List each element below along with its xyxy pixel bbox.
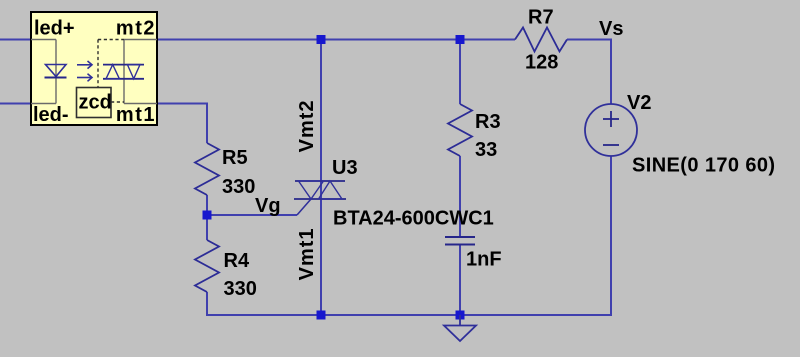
svg-text:Vmt1: Vmt1 — [296, 227, 318, 280]
svg-text:SINE(0 170 60): SINE(0 170 60) — [632, 155, 775, 177]
pin label mt2 — [116, 18, 156, 40]
svg-text:U3: U3 — [332, 157, 358, 179]
svg-text:Vmt2: Vmt2 — [296, 99, 318, 152]
wire R7 to Vs corner — [567, 39, 611, 41]
optocoupler body — [31, 12, 157, 125]
label R4 — [224, 250, 250, 272]
node Vg junction — [203, 211, 212, 220]
net label Vmt1 — [296, 227, 318, 280]
svg-text:mt2: mt2 — [116, 18, 156, 40]
svg-text:128: 128 — [525, 52, 558, 74]
wire R3 column top — [459, 40, 461, 105]
label R7 — [528, 7, 554, 29]
wire bottom net — [207, 314, 611, 316]
triac U3 — [294, 181, 346, 215]
dashed zcd links — [98, 40, 124, 103]
label U3 — [332, 157, 358, 179]
wire R5 to Vg node — [206, 195, 208, 240]
resistor R7 — [515, 28, 567, 52]
svg-text:R3: R3 — [475, 111, 501, 133]
net label Vg — [255, 195, 281, 217]
junction bottom ground node — [456, 311, 465, 320]
wire Vg gate — [207, 214, 297, 216]
wire V2 bottom to bottom net — [610, 156, 612, 316]
svg-text:BTA24-600CWC1: BTA24-600CWC1 — [333, 208, 494, 230]
wire capacitor to bottom net — [459, 245, 461, 316]
value SINE(0 170 60) — [632, 155, 775, 177]
svg-text:330: 330 — [222, 176, 255, 198]
pin label led- — [33, 104, 69, 126]
label R3 — [475, 111, 501, 133]
svg-text:mt1: mt1 — [116, 104, 156, 126]
optocoupler LED — [45, 65, 67, 78]
value BTA24-600CWC1 — [333, 208, 494, 230]
optocoupler internal triac — [103, 65, 144, 79]
wire top net mt2 to R7 — [157, 39, 515, 41]
value 330 (R4) — [224, 278, 257, 300]
svg-text:R7: R7 — [528, 7, 554, 29]
svg-text:led+: led+ — [34, 18, 75, 40]
value 128 (R7) — [525, 52, 558, 74]
label V2 — [627, 92, 651, 114]
svg-text:zcd: zcd — [79, 92, 112, 114]
label R5 — [222, 147, 248, 169]
optocoupler led conductor — [31, 40, 56, 104]
zcd block — [77, 88, 112, 118]
net label Vs — [599, 18, 623, 40]
optocoupler triac conductor — [124, 40, 157, 104]
value 1nF — [466, 249, 502, 271]
ground — [444, 315, 476, 341]
junction top R3 column — [456, 35, 465, 44]
svg-text:Vg: Vg — [255, 195, 281, 217]
svg-text:V2: V2 — [627, 92, 651, 114]
pin label led+ — [34, 18, 75, 40]
wire led- from left edge — [0, 103, 31, 105]
junction top triac column — [317, 35, 326, 44]
svg-text:R5: R5 — [222, 147, 248, 169]
value 33 (R3) — [475, 139, 497, 161]
coupling arrows — [77, 61, 92, 81]
wire led+ from left edge — [0, 39, 31, 41]
resistor R5 — [195, 143, 219, 195]
wire R4 to bottom net — [206, 292, 208, 316]
voltage source V2 — [585, 104, 637, 156]
svg-text:330: 330 — [224, 278, 257, 300]
svg-text:Vs: Vs — [599, 18, 623, 40]
wire Vs corner down to V2 top — [610, 39, 612, 105]
wire R3 to capacitor — [459, 156, 461, 237]
resistor R3 — [448, 104, 472, 156]
wire triac column — [320, 40, 322, 316]
net label Vmt2 — [296, 99, 318, 152]
wire mt1 to R5 column — [157, 104, 207, 144]
pin label mt1 — [116, 104, 156, 126]
junction bottom triac column — [317, 311, 326, 320]
svg-text:R4: R4 — [224, 250, 250, 272]
value 330 (R5) — [222, 176, 255, 198]
svg-text:led-: led- — [33, 104, 69, 126]
capacitor C1 — [445, 237, 475, 245]
svg-text:1nF: 1nF — [466, 249, 502, 271]
resistor R4 — [195, 240, 219, 292]
svg-text:33: 33 — [475, 139, 497, 161]
